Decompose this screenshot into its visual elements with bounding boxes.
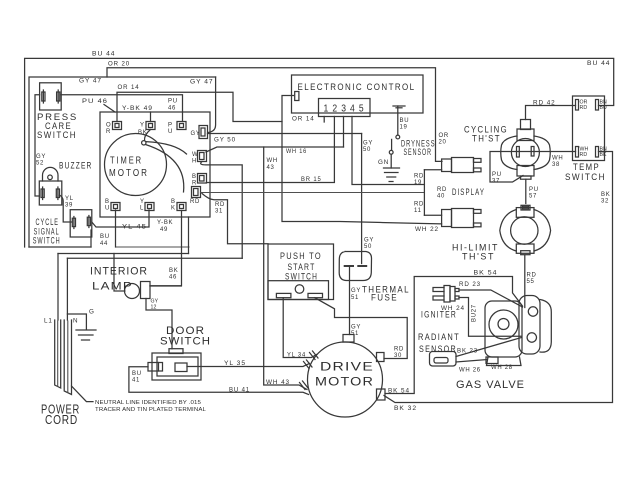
electronic control U1 [292, 75, 424, 113]
wire from timer box bottom down to L1 run [188, 217, 190, 254]
svg-text:PU: PU [492, 172, 502, 178]
electronic control pin 4 wire to display [352, 117, 424, 185]
display lower connector [442, 187, 485, 228]
svg-text:RD: RD [580, 152, 588, 158]
svg-text:R: R [106, 129, 111, 135]
wire WH43 branch down to drive motor [264, 147, 308, 390]
svg-text:O: O [106, 123, 111, 129]
svg-text:WH: WH [552, 156, 563, 162]
wire RD42 cycling thermostat to temp switch [526, 100, 576, 120]
temp switch [565, 96, 607, 183]
svg-text:K: K [171, 206, 176, 212]
svg-text:BU 44: BU 44 [92, 51, 116, 58]
svg-text:BK 54: BK 54 [474, 270, 498, 277]
svg-text:RD: RD [414, 202, 424, 208]
svg-text:31: 31 [215, 209, 223, 215]
push to start switch [268, 244, 334, 300]
svg-text:OR 14: OR 14 [118, 84, 140, 91]
svg-text:YL 34: YL 34 [287, 352, 306, 359]
svg-text:WH 26: WH 26 [459, 368, 481, 374]
timer terminal Y/L with connector [140, 199, 154, 212]
svg-text:SENSOR: SENSOR [404, 147, 433, 158]
gas valve mounting bracket [519, 296, 551, 355]
wire L1 run from power cord [58, 254, 189, 321]
svg-text:WH: WH [267, 158, 278, 164]
svg-text:PU: PU [168, 99, 178, 105]
wire PU37 cycling thermostat left [490, 152, 523, 185]
interior lamp [90, 254, 181, 299]
svg-text:FUSE: FUSE [371, 293, 398, 304]
wire RD31 branch down to L1 run [202, 194, 268, 244]
wire GY12 lamp to door switch [146, 299, 172, 349]
svg-text:32: 32 [601, 199, 609, 205]
wire BU44 timer BU terminal down through console bottom [100, 210, 116, 247]
wire N run from power cord [67, 258, 242, 320]
svg-text:RD 42: RD 42 [533, 100, 556, 107]
press care switch [37, 83, 78, 141]
svg-text:20: 20 [439, 140, 447, 146]
svg-text:BU: BU [132, 371, 142, 377]
wire YL34 push to start to drive motor [283, 298, 318, 360]
svg-text:LAMP: LAMP [92, 281, 133, 293]
svg-text:INTERIOR: INTERIOR [90, 266, 148, 278]
svg-text:WH 22: WH 22 [415, 226, 439, 233]
svg-text:RD: RD [215, 202, 225, 208]
svg-text:GAS VALVE: GAS VALVE [456, 379, 525, 391]
wire BK54 drive motor to gas valve [385, 270, 523, 395]
console box (control console enclosure) [29, 77, 216, 247]
svg-text:B: B [192, 174, 197, 180]
wire Y-BK 49 timer BK terminal down / BK46 to interior lamp [150, 211, 182, 286]
svg-text:OR: OR [439, 133, 449, 139]
svg-text:BK: BK [600, 152, 608, 158]
svg-text:Y: Y [140, 123, 145, 129]
svg-text:46: 46 [168, 106, 176, 112]
svg-text:40: 40 [437, 194, 445, 200]
timer terminal B/R with connector [192, 174, 207, 187]
svg-text:37: 37 [492, 179, 500, 185]
svg-text:YL 45: YL 45 [122, 224, 147, 231]
svg-text:46: 46 [169, 275, 177, 281]
cycle signal switch [33, 210, 92, 247]
svg-text:SWITCH: SWITCH [565, 172, 606, 183]
wire OR14 vertical to electronic control left terminal and WH22 run to display [282, 96, 442, 234]
svg-text:CORD: CORD [45, 412, 78, 427]
svg-text:51: 51 [351, 295, 359, 301]
wire GY51 thermal fuse to drive motor [350, 267, 362, 338]
timer terminal P/U with connector [168, 122, 186, 136]
timer terminal GY with connector [191, 126, 208, 139]
timer terminal B/K with connector [171, 199, 186, 212]
dryness sensor switch [389, 135, 435, 158]
drive motor [308, 335, 386, 418]
door switch [148, 325, 211, 380]
svg-text:GY: GY [364, 238, 374, 244]
svg-text:RD 23: RD 23 [459, 281, 481, 288]
svg-text:OR 20: OR 20 [108, 61, 130, 68]
wire YL45 cycle signal switch to timer YL terminal [92, 210, 149, 231]
svg-text:ELECTRONIC CONTROL: ELECTRONIC CONTROL [298, 82, 416, 93]
svg-text:BU: BU [400, 118, 410, 124]
svg-text:RADIANT: RADIANT [418, 332, 460, 343]
svg-text:G: G [89, 309, 95, 316]
svg-text:SENSOR: SENSOR [419, 344, 457, 355]
svg-text:GY: GY [363, 141, 373, 147]
timer terminal Y/BK with connector [138, 112, 155, 136]
svg-text:MOTOR: MOTOR [109, 168, 149, 179]
display connector bracket wires [414, 170, 447, 216]
wire WH38 cycling thermostat to temp switch [519, 152, 576, 169]
timer terminal B/RD with connector [190, 187, 201, 206]
svg-text:U: U [168, 129, 173, 135]
svg-text:TH'ST: TH'ST [472, 134, 501, 145]
svg-text:50: 50 [364, 244, 372, 250]
svg-text:YL: YL [65, 196, 74, 202]
svg-text:RD: RD [394, 347, 404, 353]
timer motor [105, 134, 167, 196]
svg-text:L1: L1 [44, 318, 53, 325]
wire WH26 WH28 radiant sensor to gas valve [456, 360, 513, 374]
svg-text:BK: BK [169, 268, 178, 274]
wire BU44 outer loop (top and left and right side to temp switch) [25, 51, 614, 248]
svg-text:43: 43 [267, 165, 275, 171]
svg-text:GY: GY [351, 325, 361, 331]
svg-text:WH 24: WH 24 [441, 305, 465, 312]
svg-text:GY: GY [191, 131, 201, 137]
svg-text:NEUTRAL LINE IDENTIFIED BY .01: NEUTRAL LINE IDENTIFIED BY .015 [95, 400, 201, 406]
svg-text:BK 23: BK 23 [457, 348, 478, 355]
ground GN [378, 154, 400, 181]
svg-text:BR 15: BR 15 [301, 176, 322, 183]
svg-text:BUZZER: BUZZER [59, 160, 93, 171]
svg-text:GY 50: GY 50 [214, 137, 236, 144]
svg-text:11: 11 [414, 208, 422, 214]
svg-text:BU: BU [100, 234, 110, 240]
display upper connector [442, 158, 481, 173]
svg-text:41: 41 [132, 378, 140, 384]
wire RD23 igniter to gas valve [459, 281, 523, 307]
timer cam follower curves [142, 130, 187, 193]
svg-text:GN: GN [378, 159, 389, 166]
svg-text:BK: BK [138, 130, 147, 136]
svg-text:BK 32: BK 32 [394, 405, 417, 412]
svg-text:BU 41: BU 41 [229, 387, 250, 394]
wire PU57 cycling thermostat to hi-limit [526, 179, 539, 203]
svg-text:12: 12 [151, 305, 157, 311]
timer terminal B/U with connector [105, 199, 120, 212]
wire YL35 door switch to drive motor [187, 360, 312, 369]
svg-text:19: 19 [400, 125, 408, 131]
wire timer WH second run down to N run [201, 162, 243, 259]
svg-text:R: R [192, 181, 197, 187]
electronic control terminal strip 1 2 3 4 5 [319, 99, 371, 117]
svg-text:WH 43: WH 43 [266, 379, 290, 386]
svg-text:30: 30 [394, 353, 402, 359]
power cord [41, 309, 206, 428]
wire BU41 door switch to drive motor [129, 367, 309, 395]
wire RD19 timer B/RD run to display [201, 192, 425, 194]
svg-text:BU: BU [600, 105, 608, 111]
wire BR15 timer BR to electronic control pin2 [207, 117, 335, 184]
svg-text:GY: GY [351, 288, 361, 294]
svg-text:Y: Y [140, 199, 145, 205]
svg-text:N: N [73, 318, 78, 325]
antenna terminal BU19 inside electronic control [393, 106, 409, 135]
svg-text:BK: BK [601, 192, 610, 198]
igniter connector [421, 286, 459, 321]
svg-text:U: U [105, 206, 110, 212]
svg-text:GY 47: GY 47 [79, 78, 102, 85]
wire BK32 right vertical and bottom run to drive motor [384, 152, 613, 413]
wire OR20 from console top to display connector [107, 61, 449, 162]
svg-text:50: 50 [363, 147, 371, 153]
svg-text:BU27: BU27 [472, 304, 478, 322]
gas valve body [456, 301, 525, 391]
svg-text:WH 16: WH 16 [286, 148, 307, 155]
wire GY50 timer GY to electronic control pin5 and thermal fuse [208, 134, 375, 264]
svg-text:DISPLAY: DISPLAY [452, 187, 485, 198]
svg-text:BU 44: BU 44 [587, 60, 611, 67]
svg-text:YL 35: YL 35 [224, 360, 246, 367]
buzzer [39, 160, 92, 205]
wire RD55 hi-limit to gas valve [525, 255, 537, 308]
svg-text:38: 38 [552, 162, 560, 168]
svg-text:GY 47: GY 47 [190, 79, 214, 86]
wire GY47 press care switch to timer GY terminal [79, 77, 216, 133]
electronic control pin 1 wire [323, 117, 325, 123]
svg-text:W: W [192, 152, 198, 158]
thermal fuse [339, 252, 410, 304]
svg-text:B: B [105, 199, 110, 205]
svg-text:57: 57 [529, 194, 537, 200]
svg-text:L: L [140, 206, 144, 212]
wire BK23 radiant sensor to gas valve [456, 338, 522, 357]
svg-text:52: 52 [36, 161, 44, 167]
svg-text:Y-BK 49: Y-BK 49 [122, 105, 153, 112]
svg-text:TH'ST: TH'ST [462, 252, 495, 263]
wire RD30 push to start to drive motor [315, 298, 407, 359]
svg-text:PUSH TO: PUSH TO [280, 251, 322, 262]
svg-text:SWITCH: SWITCH [285, 272, 318, 283]
svg-text:RD: RD [437, 187, 447, 193]
svg-text:44: 44 [100, 241, 108, 247]
svg-text:H: H [192, 159, 197, 165]
svg-text:1 2 3 4 5: 1 2 3 4 5 [324, 104, 365, 115]
svg-text:TIMER: TIMER [110, 156, 143, 167]
svg-text:BK 54: BK 54 [388, 388, 410, 395]
svg-text:OR 14: OR 14 [292, 116, 315, 123]
wire WH16 timer WH to electronic control pin3 [206, 117, 344, 156]
svg-text:19: 19 [414, 180, 422, 186]
radiant sensor [418, 332, 460, 366]
svg-text:RD: RD [414, 174, 424, 180]
svg-text:DRIVE: DRIVE [320, 360, 374, 374]
wire WH24 BU27 igniter to gas valve [441, 298, 522, 337]
svg-text:PU: PU [529, 187, 539, 193]
wire YL39 buzzer to cycle signal switch [60, 195, 74, 222]
svg-text:Y-BK: Y-BK [157, 220, 173, 226]
timer terminal W/H with connector [192, 151, 207, 165]
svg-text:RD: RD [527, 273, 537, 279]
wire left rail press care to buzzer [35, 95, 46, 196]
svg-text:55: 55 [527, 279, 535, 285]
svg-text:TRACER AND TIN PLATED TERMINAL: TRACER AND TIN PLATED TERMINAL [95, 407, 206, 413]
timer assembly box [100, 112, 210, 217]
svg-text:P: P [168, 123, 173, 129]
wire PU46 / OR14 run from press care switch right terminal [61, 84, 282, 122]
svg-text:SWITCH: SWITCH [33, 236, 61, 247]
svg-text:49: 49 [160, 227, 168, 233]
svg-text:39: 39 [65, 203, 73, 209]
cycling thermostat [464, 120, 550, 180]
svg-text:SWITCH: SWITCH [37, 130, 77, 141]
hi-limit thermostat [452, 205, 551, 262]
svg-text:B: B [171, 199, 176, 205]
timer terminal O/R with connector [106, 122, 122, 136]
svg-text:RD: RD [190, 199, 200, 205]
svg-text:SWITCH: SWITCH [160, 336, 211, 348]
svg-text:MOTOR: MOTOR [315, 375, 374, 389]
svg-text:GY: GY [36, 154, 46, 160]
svg-text:RD: RD [580, 105, 588, 111]
